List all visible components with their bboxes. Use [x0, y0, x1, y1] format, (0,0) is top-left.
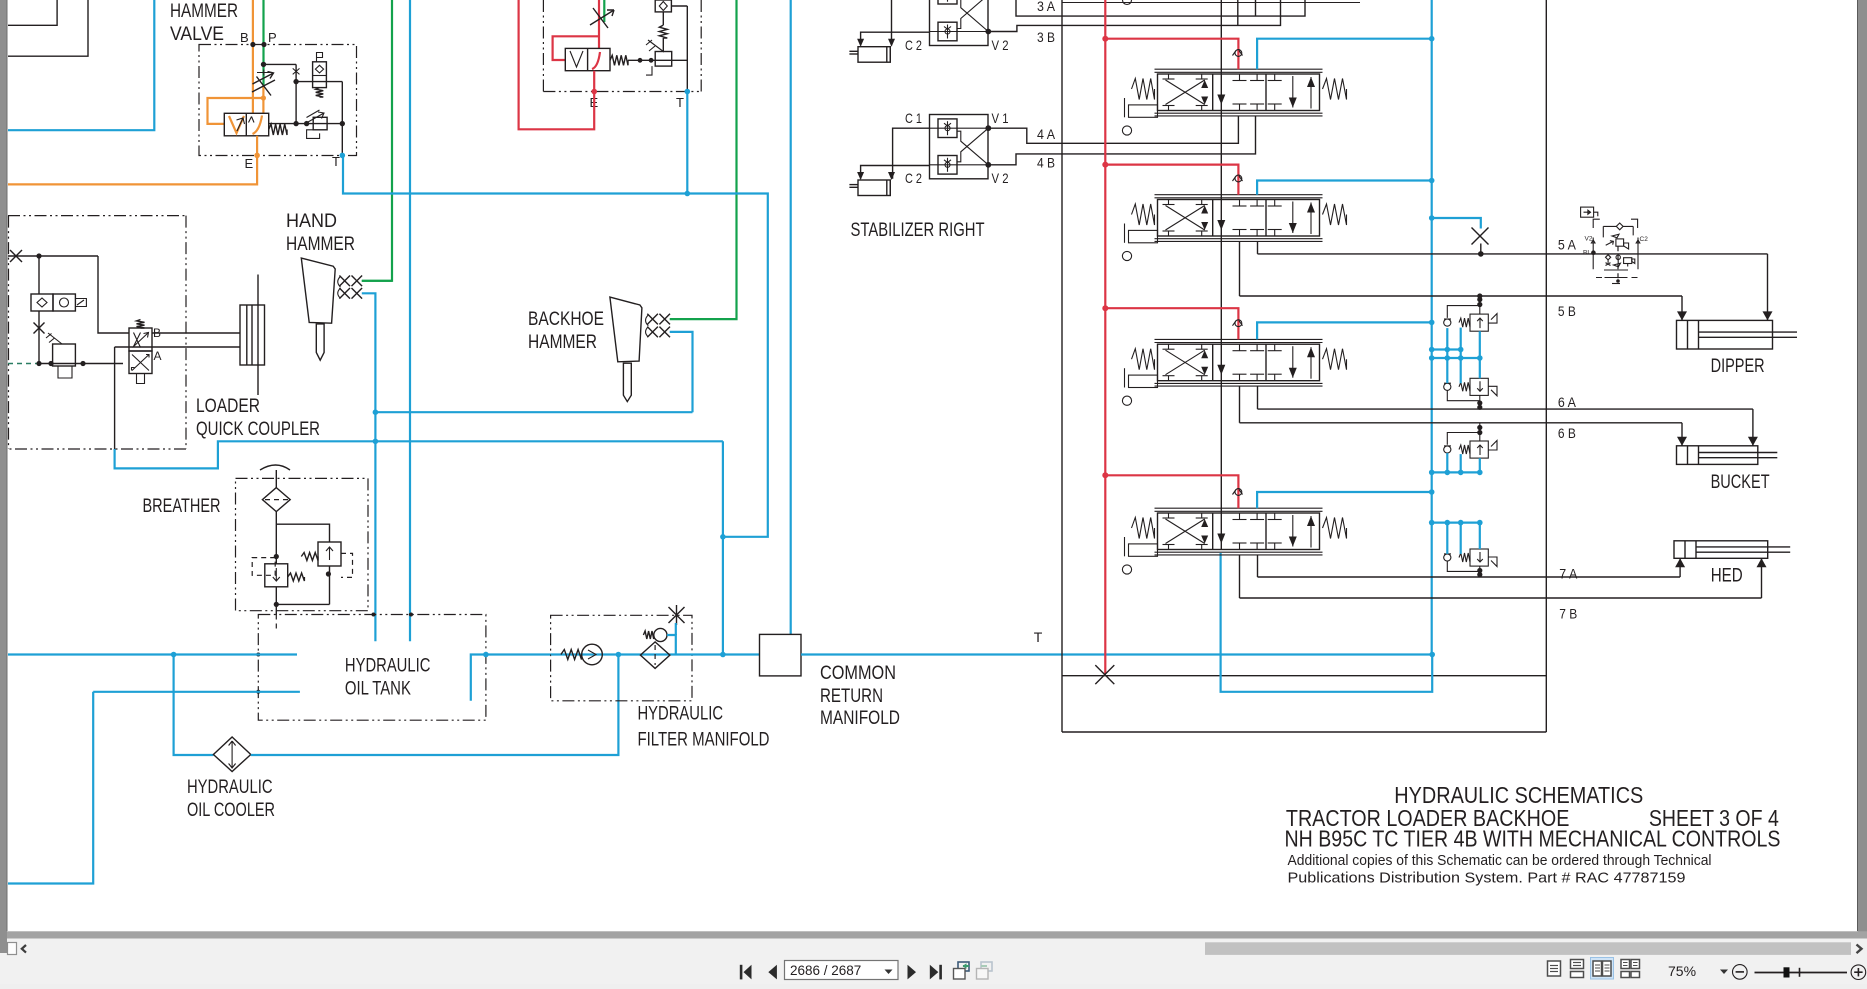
- breather relief valve (in): [318, 542, 341, 566]
- port relief / anti-cavitation valve: [1470, 378, 1488, 395]
- svg-text:BUCKET: BUCKET: [1711, 471, 1770, 493]
- wire green to coupler: [362, 280, 392, 282]
- wire low pressure header: [39, 363, 123, 365]
- wire filter down: [275, 512, 277, 564]
- hand hammer chisel: [316, 324, 324, 360]
- svg-text:HYDRAULIC: HYDRAULIC: [187, 776, 273, 798]
- horizontal scrollbar left arrow: [22, 945, 27, 954]
- svg-text:V 2: V 2: [992, 170, 1009, 186]
- check valve with spring (filter bypass): [561, 650, 582, 660]
- port relief / anti-cavitation valve: [1470, 314, 1488, 331]
- svg-text:VALVE: VALVE: [170, 23, 224, 45]
- wire 7A: [1257, 555, 1259, 577]
- svg-text:7 A: 7 A: [1559, 566, 1578, 582]
- svg-text:HAMMER: HAMMER: [170, 0, 238, 22]
- parallel flow section (right): [1274, 513, 1276, 520]
- wire A drop to enclosure edge: [114, 347, 116, 449]
- valve return spring: [610, 55, 628, 65]
- wire cyan cross connection: [375, 411, 692, 413]
- coupler cylinder rod centerline: [257, 275, 259, 396]
- blocked centre section: [1239, 344, 1241, 351]
- wire 7B rise to HED: [1761, 558, 1763, 598]
- toolbar last-page button: [930, 965, 939, 980]
- stabilizer cylinder: [858, 47, 890, 63]
- actuator pilot circle: [1122, 396, 1131, 405]
- wire orange supply from top through port B: [252, 0, 254, 113]
- coupler cylinder: [240, 305, 265, 365]
- toolbar zoom-out button: [1733, 965, 1748, 980]
- loader quick coupler enclosure (dash-dot): [8, 215, 186, 217]
- wire red feed to spool valve: [1105, 475, 1238, 508]
- restrictor below solenoid valve: [38, 311, 40, 364]
- port relief / anti-cavitation valve: [1470, 549, 1488, 566]
- toolbar zoom slider: [1755, 972, 1848, 974]
- wire T leg: [341, 82, 343, 156]
- svg-text:QUICK COUPLER: QUICK COUPLER: [196, 418, 320, 440]
- check spring: [659, 25, 667, 38]
- toolbar two-page continuous icon: [1621, 960, 1630, 969]
- wire C2 to cylinder: [861, 166, 930, 179]
- cyan legs cluster 1: [1446, 328, 1448, 358]
- toolbar previous-page button: [768, 965, 777, 980]
- svg-text:4 A: 4 A: [1037, 126, 1056, 142]
- wire cut-off corner (cyan): [8, 0, 154, 130]
- parallel flow section (right): [1274, 74, 1276, 81]
- pilot drain dashed (teal): [8, 363, 39, 365]
- orange pilot loop to valve: [208, 98, 264, 124]
- breather enclosure (dash-dot): [236, 478, 369, 610]
- manual actuator: [1129, 375, 1158, 387]
- svg-text:BL: BL: [1583, 250, 1591, 257]
- svg-text:T: T: [332, 154, 340, 169]
- svg-text:STABILIZER RIGHT: STABILIZER RIGHT: [851, 219, 985, 241]
- wire cyan trunk to oil tank port 2: [409, 0, 411, 641]
- toolbar page number box: [785, 961, 899, 980]
- wire cyan through filter manifold: [551, 653, 760, 655]
- blocked centre section: [1239, 74, 1241, 81]
- crossover arrows (left section): [1166, 350, 1205, 375]
- relief valve: [53, 344, 76, 366]
- wire 3A: [1016, 0, 1305, 16]
- svg-text:OIL COOLER: OIL COOLER: [187, 799, 275, 821]
- svg-text:5 A: 5 A: [1558, 237, 1577, 253]
- backhoe hammer chisel: [623, 363, 631, 401]
- manual actuator: [1129, 544, 1158, 556]
- svg-text:DIPPER: DIPPER: [1711, 355, 1765, 377]
- PDF viewer left gray margin: [0, 0, 7, 953]
- wire 5A drop to dipper: [1767, 254, 1769, 321]
- wire green pilot from top to restrictor: [262, 0, 264, 86]
- svg-text:4 B: 4 B: [1037, 155, 1055, 171]
- wire cyan service to gallery: [1257, 181, 1432, 195]
- wire red feed to spool valve: [1105, 165, 1238, 195]
- valve return spring: [269, 124, 287, 135]
- toolbar previous-view icon: [958, 962, 969, 971]
- wire orange valve to port E: [256, 136, 258, 156]
- wire orange from E to left margin: [8, 155, 257, 184]
- toolbar next-page button: [908, 965, 917, 980]
- horizontal scrollbar right arrow: [1857, 945, 1862, 954]
- wire inlet header: [8, 255, 98, 257]
- centring springs: [1132, 204, 1155, 225]
- manual actuator: [1129, 105, 1158, 117]
- plugged test port: [669, 607, 685, 623]
- svg-text:7 B: 7 B: [1559, 606, 1577, 622]
- spool valve top rails: [1155, 338, 1323, 340]
- solenoid valve block: [31, 294, 53, 311]
- wire 6A drop to bucket: [1752, 409, 1754, 446]
- wire valve to T leg: [628, 59, 687, 61]
- wire 6B drop to bucket: [1681, 423, 1683, 446]
- svg-text:3 A: 3 A: [1037, 0, 1056, 14]
- wire cyan relief to plug: [667, 635, 676, 655]
- svg-text:V2: V2: [1585, 236, 1593, 243]
- filter element (diamond): [640, 642, 670, 669]
- backhoe hammer valve body: [565, 48, 610, 70]
- horizontal scrollbar thumb: [1205, 942, 1851, 955]
- page bottom shadow band: [7, 931, 1867, 938]
- svg-text:NH B95C TC TIER 4B WITH MECHAN: NH B95C TC TIER 4B WITH MECHANICAL CONTR…: [1285, 826, 1781, 852]
- wire breather bottom header: [275, 587, 277, 605]
- wire red supply from top: [598, 0, 600, 48]
- valve 0 remnant rail: [1062, 2, 1360, 4]
- crossover arrows (left section): [1166, 206, 1205, 231]
- svg-text:HAMMER: HAMMER: [286, 233, 355, 255]
- check restrictor at inlet: [10, 250, 22, 262]
- wire valve to relief header: [269, 123, 343, 125]
- spool valve bottom rails: [1155, 382, 1323, 384]
- common return manifold block: [760, 634, 802, 676]
- check block port lines: [930, 127, 989, 129]
- svg-text:BREATHER: BREATHER: [143, 495, 221, 517]
- svg-text:A: A: [154, 349, 162, 363]
- bottom UI background: [0, 939, 1867, 985]
- actuator pilot circle: [1122, 565, 1131, 574]
- wire cyan service to gallery: [1257, 492, 1432, 508]
- actuator pilot circle: [1122, 251, 1131, 260]
- svg-text:RETURN: RETURN: [820, 685, 883, 707]
- centring springs: [1132, 518, 1155, 539]
- check cartridge 2: [938, 156, 957, 175]
- svg-text:C2: C2: [1640, 236, 1649, 243]
- wire cyan return into tank port 1: [8, 653, 297, 655]
- port B junction: [250, 42, 255, 47]
- pilot check block: [930, 0, 989, 46]
- port T junction: [685, 89, 691, 95]
- filter manifold enclosure (dash-dot): [551, 615, 692, 701]
- spool valve bottom rails: [1155, 112, 1323, 114]
- wire cut-off corner 2 (black): [8, 0, 88, 56]
- toolbar two-page layout icon (active): [1591, 958, 1614, 980]
- tank suction stub marks: [372, 613, 376, 617]
- dipper anti-drift valve block: [1581, 207, 1594, 217]
- wire cyan from coupler: [362, 293, 376, 641]
- red pilot loop: [553, 36, 598, 60]
- coupler control valve (4/2): [129, 328, 152, 351]
- red pressure gallery: [1104, 0, 1106, 674]
- svg-text:COMMON: COMMON: [820, 662, 896, 684]
- spool valve bottom rails: [1155, 551, 1323, 553]
- wire valve B to cylinder: [152, 332, 240, 334]
- check cartridge 1: [938, 0, 957, 4]
- pilot line to check valve and T leg: [296, 81, 342, 83]
- backhoe hammer coupler brackets: [646, 315, 649, 337]
- cyan tank gallery below valve 4: [1221, 553, 1433, 692]
- cyan junction row 4: [1432, 521, 1480, 523]
- toolbar next-view icon (disabled): [981, 962, 992, 971]
- svg-text:C 2: C 2: [905, 170, 922, 186]
- svg-text:LOADER: LOADER: [196, 395, 260, 417]
- anti-drift block lower parts: [1606, 255, 1611, 260]
- wire 6B: [1239, 386, 1241, 423]
- svg-text:HYDRAULIC: HYDRAULIC: [345, 655, 431, 677]
- wire cyan cooler loop: [174, 655, 214, 756]
- centring springs: [1132, 349, 1155, 370]
- check cartridge 1: [938, 119, 957, 138]
- wire cyan to loader coupler A line: [375, 440, 723, 442]
- HED cylinder: [1674, 541, 1768, 559]
- wire cyan cooler to filter branch: [251, 655, 619, 756]
- wire cyan filter return into tank: [471, 655, 551, 701]
- blocked centre section: [1239, 513, 1241, 520]
- wire down to solenoid valve: [38, 256, 40, 294]
- hand hammer valve enclosure (dash-dot): [199, 45, 357, 156]
- svg-text:5 B: 5 B: [1558, 303, 1576, 319]
- spool valve top rails: [1155, 507, 1323, 509]
- PDF viewer right gray margin: [1858, 0, 1867, 932]
- wire green trunk to hand hammer: [362, 0, 392, 281]
- blocked centre section: [1239, 200, 1241, 207]
- wire red from E down-left-up: [519, 0, 595, 129]
- stabilizer cylinder: [858, 180, 890, 196]
- wire C1 to cylinder: [893, 128, 930, 179]
- BUCKET cylinder: [1677, 446, 1758, 465]
- svg-text:75%: 75%: [1668, 963, 1696, 979]
- svg-text:HED: HED: [1711, 565, 1743, 587]
- hand hammer quick couplers: [339, 276, 350, 287]
- backhoe hammer body: [610, 297, 642, 362]
- spool valve bottom rails: [1155, 238, 1323, 240]
- hand hammer coupler brackets: [338, 276, 341, 298]
- junction cyan returns: [373, 409, 379, 415]
- plugged service port (X) on 5A: [1432, 218, 1481, 229]
- port E junction: [254, 153, 260, 159]
- load check valve: [1235, 50, 1242, 57]
- hand hammer body: [301, 258, 335, 323]
- wire 6A: [1257, 386, 1259, 409]
- wire 7A rise to HED: [1679, 558, 1681, 577]
- wire green pilot from top: [603, 0, 605, 22]
- svg-text:E: E: [245, 156, 254, 171]
- wire orange restrictor to valve: [262, 86, 264, 113]
- spool valve body: [1158, 344, 1320, 381]
- svg-text:B: B: [240, 30, 249, 45]
- variable restrictor on P line: [252, 80, 275, 92]
- wire cyan return into tank port 2: [93, 691, 300, 693]
- wire 4B: [988, 116, 1256, 165]
- cyan legs cluster 2: [1446, 358, 1448, 383]
- manual actuator: [1129, 230, 1158, 242]
- wire 5A: [1257, 241, 1259, 254]
- wire breather to tank (dashed): [275, 604, 277, 614]
- wire C2 to cylinder: [861, 32, 930, 45]
- wire cyan hammer T return header: [343, 156, 768, 537]
- wire 7B: [1239, 555, 1241, 598]
- backhoe hammer quick couplers: [647, 314, 658, 325]
- svg-text:T: T: [1034, 629, 1043, 645]
- pilot check block: [930, 115, 989, 179]
- load check valve: [1235, 175, 1242, 182]
- svg-text:MANIFOLD: MANIFOLD: [820, 707, 900, 729]
- svg-text:P: P: [268, 30, 277, 45]
- svg-text:BACKHOE: BACKHOE: [528, 308, 604, 330]
- cross pilot lines: [957, 0, 989, 31]
- breather vacuum valve (in, small): [252, 558, 275, 576]
- spool valve body: [1158, 513, 1320, 550]
- check valve square with seat: [655, 0, 671, 12]
- wire red feed to spool valve: [1105, 308, 1238, 339]
- wire 3B: [988, 0, 1281, 32]
- wire 4A: [988, 116, 1238, 143]
- svg-text:Additional copies of this Sche: Additional copies of this Schematic can …: [1288, 853, 1712, 869]
- filter relief valve (small): [643, 631, 653, 639]
- breather cap arc: [260, 465, 290, 470]
- toolbar first-page button: [740, 965, 743, 980]
- plugged end of pressure gallery: [1095, 665, 1114, 684]
- load check valve: [1235, 320, 1242, 327]
- wire 5B: [1239, 241, 1241, 296]
- check valve (anti-cavitation): [317, 53, 323, 62]
- wire green trunk to backhoe hammer: [670, 0, 737, 319]
- parallel flow section (right): [1274, 344, 1276, 351]
- cyan legs cluster 3: [1446, 453, 1448, 472]
- svg-text:V 1: V 1: [992, 110, 1009, 126]
- toolbar zoom-in button: [1851, 965, 1866, 980]
- wire cyan from T to common drop: [686, 92, 688, 194]
- check cartridge 2: [938, 22, 957, 41]
- svg-text:HYDRAULIC: HYDRAULIC: [638, 703, 724, 725]
- backhoe hammer valve enclosure (dash-dot): [542, 0, 544, 92]
- port relief / anti-cavitation valve: [1470, 441, 1488, 458]
- toolbar continuous layout icon: [1571, 960, 1584, 969]
- port E junction: [591, 89, 597, 95]
- svg-text:6 A: 6 A: [1558, 394, 1577, 410]
- svg-text:C 1: C 1: [905, 110, 922, 126]
- centring springs: [1132, 79, 1155, 100]
- svg-text:V 2: V 2: [992, 37, 1009, 53]
- wire red feed to spool valve: [1105, 39, 1238, 69]
- oil tank enclosure (dash-dot): [258, 615, 486, 721]
- spool valve body: [1158, 200, 1320, 237]
- valve bank enclosure: [1061, 0, 1063, 732]
- crossover arrows (left section): [1166, 80, 1205, 105]
- wire 5B drop to dipper: [1681, 296, 1683, 320]
- svg-text:FILTER MANIFOLD: FILTER MANIFOLD: [638, 729, 770, 751]
- wire inlet to valve B side: [98, 256, 129, 333]
- wire cut-off corner 1 (black): [8, 0, 57, 25]
- branch to relief valve: [276, 524, 329, 542]
- wire cyan main return to valve bank: [801, 653, 1432, 655]
- toolbar single-page layout icon: [1548, 961, 1561, 976]
- cyan junction row 2: [1432, 357, 1480, 359]
- wire valve A to cylinder: [115, 346, 240, 348]
- hand hammer valve body (2-position valve): [224, 113, 268, 136]
- wire cyan service to gallery: [1257, 322, 1432, 339]
- oil cooler (diamond): [213, 737, 250, 772]
- wire cyan service to gallery: [1257, 39, 1432, 69]
- relief valve: [655, 52, 672, 67]
- variable restrictor on pilot line: [590, 10, 614, 25]
- svg-text:6 B: 6 B: [1558, 425, 1576, 441]
- pilot relief valve: [313, 117, 327, 130]
- tank gallery line through valves: [1220, 0, 1222, 550]
- port P junction: [261, 42, 266, 47]
- cyan junction row 3: [1432, 471, 1480, 473]
- crossover arrows (left section): [1166, 519, 1205, 544]
- check valve spring: [316, 88, 324, 97]
- cross pilot lines: [957, 131, 989, 165]
- wire cyan trunk to return manifold: [790, 0, 792, 634]
- wire C1 to cylinder: [892, 0, 930, 45]
- valve 0 pilot circle: [1123, 0, 1132, 5]
- spool valve body: [1158, 74, 1320, 111]
- load check valve: [1235, 489, 1242, 496]
- cyan junction row 1: [1432, 348, 1461, 350]
- port T junction: [340, 153, 346, 159]
- horizontal scrollbar left page icon: [8, 943, 17, 955]
- svg-text:HAMMER: HAMMER: [528, 331, 597, 353]
- cyan service gallery: [1431, 0, 1433, 655]
- svg-text:Publications Distribution Syst: Publications Distribution System. Part #…: [1288, 871, 1686, 887]
- svg-text:HAND: HAND: [286, 210, 337, 232]
- wire cyan from backhoe coupler: [670, 332, 693, 412]
- DIPPER cylinder: [1677, 320, 1773, 349]
- svg-text:2686 / 2687: 2686 / 2687: [790, 963, 861, 978]
- wire cyan return drop to main return line: [722, 441, 724, 654]
- cyan legs cluster 4: [1446, 523, 1448, 554]
- svg-text:C 2: C 2: [905, 37, 922, 53]
- svg-text:T: T: [676, 95, 684, 110]
- parallel flow section (right): [1274, 200, 1276, 207]
- spool valve top rails: [1155, 68, 1323, 70]
- breather filter (diamond): [262, 488, 290, 512]
- spool valve top rails: [1155, 194, 1323, 196]
- svg-text:OIL TANK: OIL TANK: [345, 678, 411, 700]
- actuator pilot circle: [1122, 126, 1131, 135]
- pilot branch from P: [264, 63, 297, 65]
- svg-text:3 B: 3 B: [1037, 29, 1055, 45]
